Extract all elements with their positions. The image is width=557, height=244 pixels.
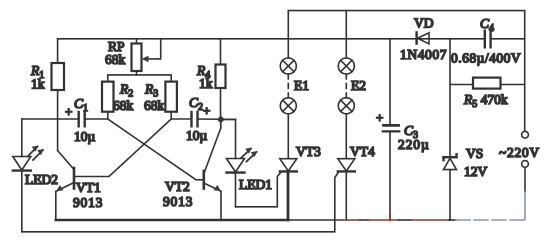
svg-text:68k: 68k [144, 98, 165, 113]
svg-text:9013: 9013 [163, 194, 193, 209]
svg-text:1k: 1k [199, 76, 213, 91]
svg-text:VS: VS [466, 146, 483, 161]
wire LED1 cathode to VT3 gate [236, 172, 282, 207]
lamp string E1 [280, 11, 296, 159]
LED LED1 [221, 119, 258, 206]
svg-text:68k: 68k [105, 52, 126, 67]
svg-text:68k: 68k [113, 98, 134, 113]
thyristor VT3 [280, 159, 297, 220]
wire cross coupling R2/C1 to VT2 base [108, 119, 203, 180]
wire cross coupling R3/C2 to VT1 base [76, 119, 172, 177]
potentiometer RP [132, 39, 161, 75]
svg-text:10µ: 10µ [74, 129, 96, 144]
svg-text:LED2: LED2 [25, 172, 58, 187]
svg-text:+: + [203, 103, 210, 118]
svg-text:10µ: 10µ [186, 128, 208, 143]
lamp string E2 [338, 11, 354, 159]
resistor R4 [216, 39, 226, 120]
svg-text:LED1: LED1 [239, 177, 272, 192]
zener diode VS [444, 154, 457, 220]
wire lower terminal to ground rail [524, 167, 526, 219]
diode VD [417, 32, 429, 43]
wire VD-C4 node down [449, 39, 451, 157]
svg-text:VD: VD [414, 16, 434, 31]
svg-text:0.68µ/400V: 0.68µ/400V [451, 51, 521, 66]
node A junction dot [217, 115, 225, 123]
transistor VT2 [204, 119, 221, 220]
svg-text:+: + [65, 104, 72, 119]
resistor R5 [450, 78, 525, 89]
wire right vertical to terminal [524, 39, 526, 131]
svg-text:220µ: 220µ [398, 137, 430, 152]
wire C3 stem bottom tint [389, 213, 391, 220]
terminal upper ~220V [522, 131, 529, 138]
wire LED2 cathode to VT4 gate [22, 172, 339, 232]
LED LED2 [13, 119, 44, 232]
svg-text:VT1: VT1 [76, 180, 101, 195]
svg-text:VT3: VT3 [296, 144, 321, 159]
thyristor VT4 [338, 159, 355, 220]
wire top DC rail [58, 38, 484, 40]
svg-text:VT4: VT4 [350, 144, 375, 159]
transistor VT1 [56, 119, 74, 220]
svg-text:9013: 9013 [73, 195, 103, 210]
resistor R3 [165, 82, 177, 119]
resistor R1 [52, 39, 65, 119]
svg-text:12V: 12V [464, 164, 488, 179]
svg-text:E2: E2 [351, 78, 366, 93]
svg-text:+: + [376, 110, 383, 125]
svg-text:E1: E1 [294, 78, 309, 93]
wire bottom ground rail [56, 219, 525, 222]
svg-text:VT2: VT2 [165, 179, 190, 194]
wire top AC rail [288, 11, 524, 39]
resistor R2 [102, 82, 114, 119]
capacitor C2 [171, 112, 235, 126]
capacitor C3 [383, 39, 400, 220]
capacitor C4 [485, 31, 491, 48]
capacitor C1 [22, 112, 108, 126]
terminal lower ~220V [522, 161, 529, 168]
svg-text:1k: 1k [31, 77, 45, 92]
svg-text:1N4007: 1N4007 [400, 47, 447, 62]
wire RP bottom to R2 R3 [108, 75, 171, 82]
svg-text:~220V: ~220V [499, 145, 540, 160]
